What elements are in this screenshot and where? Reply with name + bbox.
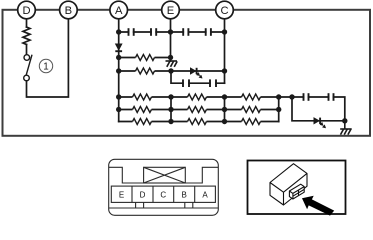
resistor R1 (below D) (23, 27, 30, 45)
terminal letters (119, 190, 208, 199)
wire grid row 3 (119, 121, 279, 123)
photo-diode D3 (right branch, with arrows) (314, 118, 326, 128)
junction dots (116, 29, 347, 124)
capacitor C7 (304, 93, 309, 101)
schematic border box (3, 10, 371, 136)
connector pinout box (109, 159, 219, 215)
wire row3 (119, 70, 225, 72)
resistor R2 (136, 54, 155, 62)
connector lip right (185, 167, 218, 183)
svg-text:A: A (115, 5, 123, 17)
resistor R8 (188, 106, 207, 114)
svg-text:C: C (220, 5, 228, 17)
resistor R11 (188, 118, 207, 126)
resistor R6 (242, 93, 261, 101)
capacitor C3 (183, 28, 188, 36)
bottom inner line (109, 207, 219, 209)
wire grid row 1 (119, 96, 292, 98)
svg-text:A: A (202, 190, 208, 199)
switch S1 blade (26, 55, 32, 75)
terminal C (216, 1, 234, 19)
switch S1 contact top (24, 55, 30, 61)
photo-diode D2 (row3, with arrows) (190, 68, 202, 78)
resistor R3 (136, 67, 155, 75)
diode D1 (on bus A, pointing down) (115, 44, 122, 51)
capacitor C6 (210, 79, 216, 87)
wire grid bus 2 (170, 97, 172, 122)
resistor R10 (133, 118, 152, 126)
wire capacitor sub-loop (171, 71, 225, 83)
terminal strip (111, 186, 215, 202)
tab left (136, 202, 144, 208)
wire top capacitor row (119, 31, 225, 33)
resistor R9 (242, 106, 261, 114)
wire grid bus 4 (278, 97, 280, 122)
capacitor C1 (129, 28, 134, 36)
capacitor C2 (151, 28, 156, 36)
wire C vertical (224, 19, 226, 84)
connector lip left (109, 167, 144, 183)
resistor R4 (133, 93, 152, 101)
terminal A (110, 1, 128, 19)
svg-text:B: B (65, 5, 72, 17)
terminal D (18, 1, 36, 19)
wire switch to B (27, 19, 69, 97)
capacitor C5 (183, 79, 189, 87)
resistor R5 (188, 93, 207, 101)
svg-text:D: D (22, 5, 30, 17)
wire right capacitor branch (292, 97, 345, 121)
wire resistor to switch (26, 45, 28, 55)
capacitor C4 (206, 28, 211, 36)
wire bus A vertical (118, 19, 120, 122)
wire E vertical (170, 19, 172, 61)
ground G1 (under E line) (166, 61, 178, 67)
svg-text:E: E (119, 190, 124, 199)
ground G2 (right branch) (340, 121, 352, 135)
label circled 1 (39, 59, 52, 72)
svg-text:E: E (167, 5, 174, 17)
svg-text:C: C (160, 190, 166, 199)
3D connector body (270, 164, 307, 205)
resistor R12 (242, 118, 261, 126)
wire row2 (119, 57, 171, 59)
svg-text:B: B (182, 190, 187, 199)
svg-text:1: 1 (43, 62, 48, 73)
wire right diode branch (292, 97, 345, 121)
wire grid row 2 (119, 109, 279, 111)
svg-text:D: D (140, 190, 146, 199)
switch S1 contact bottom (24, 75, 30, 81)
capacitor C8 (329, 93, 334, 101)
terminal B (60, 1, 78, 19)
resistor R7 (133, 106, 152, 114)
crossed keyway box (144, 167, 186, 183)
connector photo box (248, 161, 346, 215)
wire grid bus 3 (224, 97, 226, 122)
terminal E (162, 1, 180, 19)
wire D branch top (26, 19, 28, 27)
tab right (185, 202, 193, 208)
3D connector terminal block (289, 184, 304, 199)
pointer arrow (302, 196, 334, 216)
